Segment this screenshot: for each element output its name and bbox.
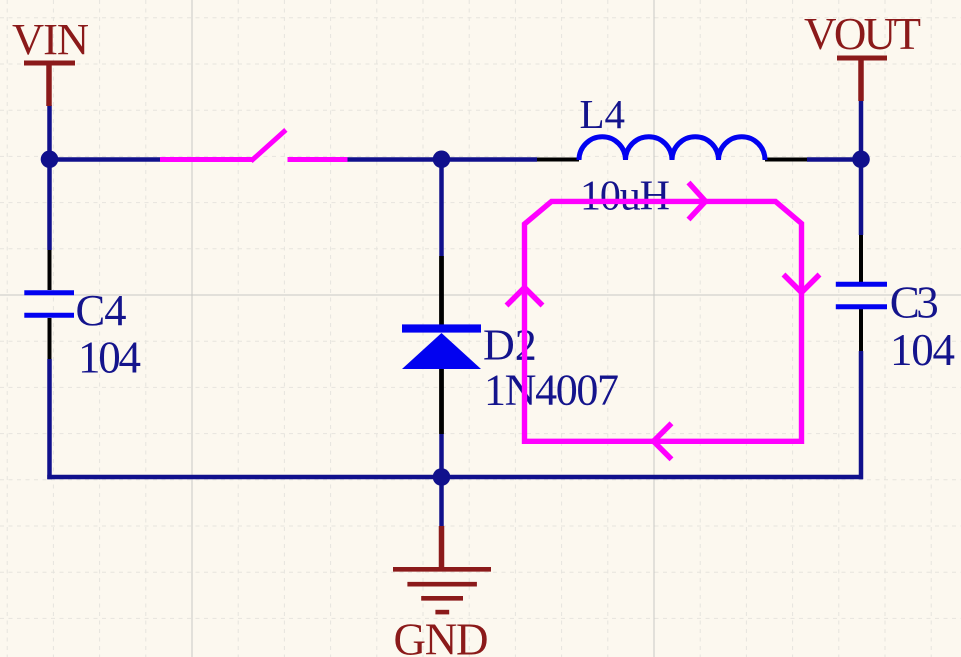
svg-text:1N4007: 1N4007	[484, 366, 619, 415]
svg-text:10uH: 10uH	[580, 174, 670, 220]
svg-text:VIN: VIN	[12, 14, 89, 64]
svg-text:GND: GND	[394, 615, 489, 657]
svg-text:C3: C3	[890, 278, 939, 328]
svg-text:104: 104	[890, 325, 955, 375]
svg-text:104: 104	[78, 333, 141, 383]
svg-text:C4: C4	[76, 285, 127, 335]
svg-text:VOUT: VOUT	[804, 9, 921, 59]
svg-text:L4: L4	[580, 91, 626, 137]
svg-text:D2: D2	[483, 321, 537, 370]
